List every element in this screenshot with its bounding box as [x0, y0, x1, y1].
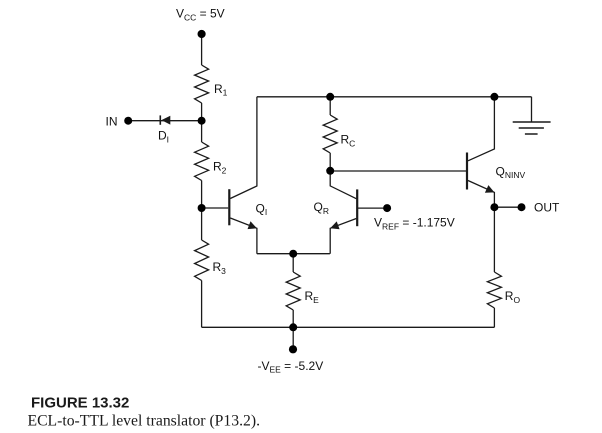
svg-text:VCC = 5V: VCC = 5V	[176, 7, 225, 23]
svg-text:-VEE = -5.2V: -VEE = -5.2V	[258, 359, 324, 375]
svg-text:R2: R2	[213, 160, 227, 176]
svg-text:RC: RC	[341, 133, 356, 149]
svg-text:IN: IN	[106, 114, 118, 128]
svg-text:QNINV: QNINV	[496, 164, 526, 180]
svg-text:QI: QI	[256, 201, 268, 217]
svg-text:R3: R3	[213, 260, 227, 276]
svg-text:OUT: OUT	[534, 200, 560, 214]
svg-text:ECL-to-TTL level translator (P: ECL-to-TTL level translator (P13.2).	[28, 412, 261, 429]
svg-text:DI: DI	[158, 129, 169, 145]
svg-text:RE: RE	[305, 289, 320, 305]
svg-text:QR: QR	[314, 200, 329, 216]
svg-text:FIGURE 13.32: FIGURE 13.32	[31, 395, 129, 412]
svg-text:VREF = -1.175V: VREF = -1.175V	[374, 216, 455, 232]
svg-text:R1: R1	[214, 82, 228, 98]
svg-text:RO: RO	[505, 289, 521, 305]
